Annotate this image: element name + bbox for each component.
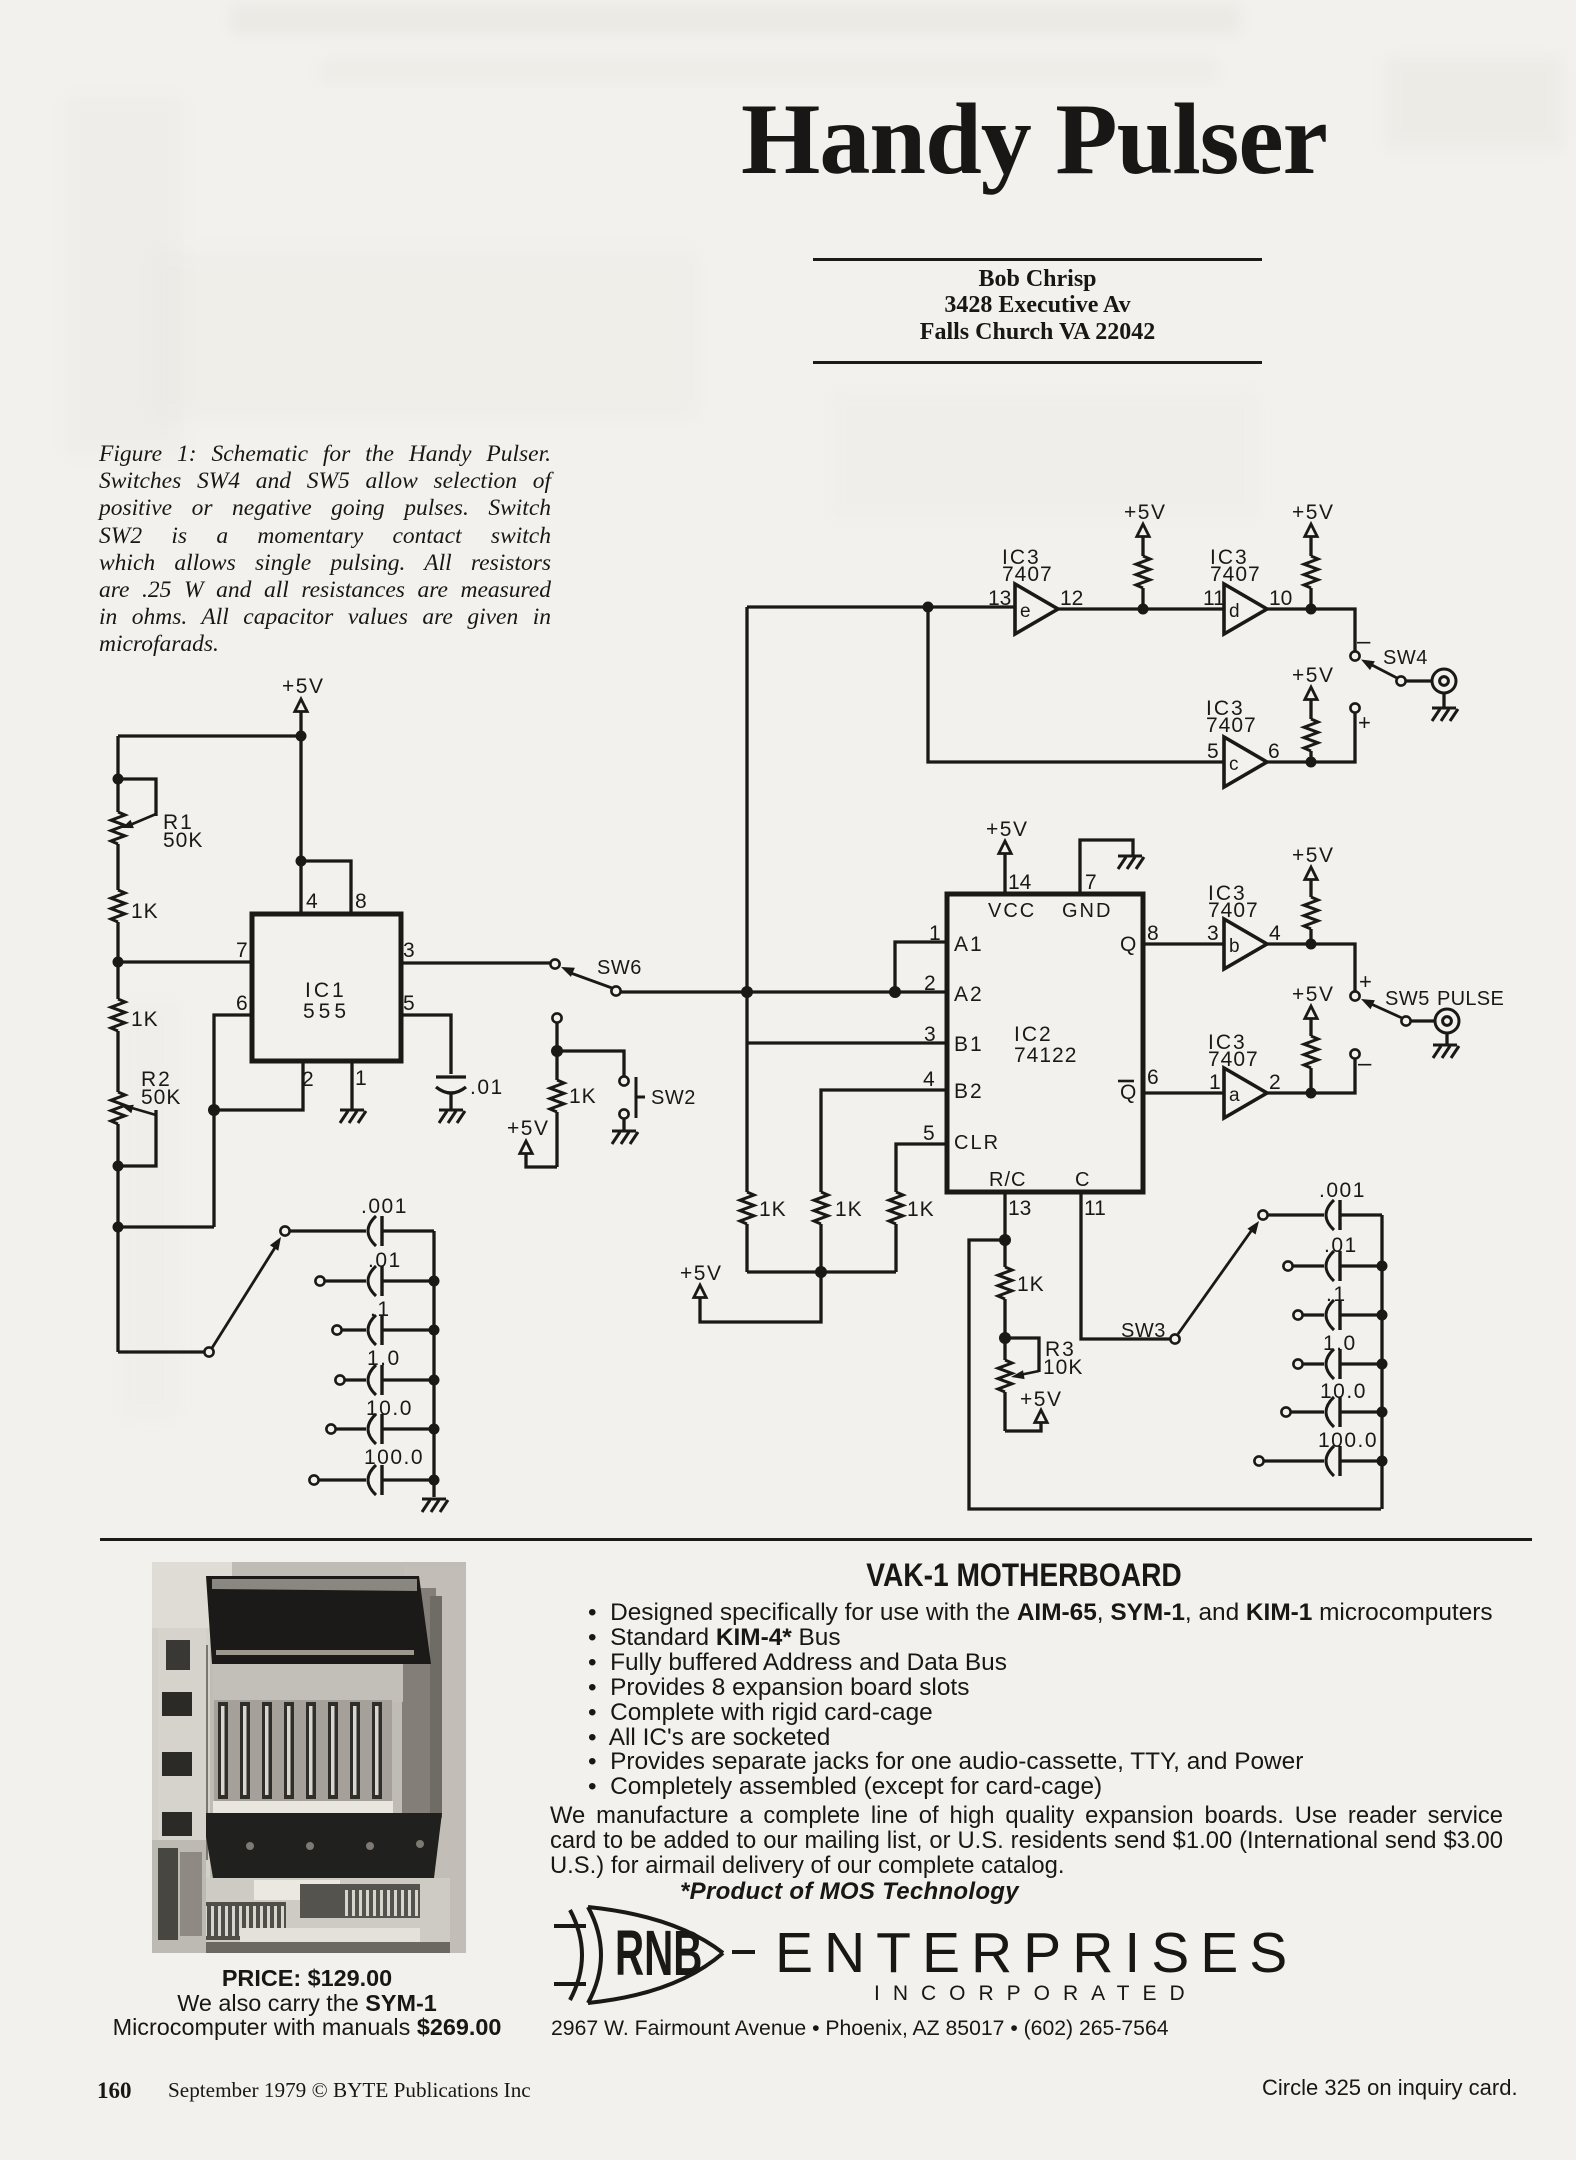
svg-text:.001: .001 xyxy=(361,1195,408,1218)
node right bus row6 xyxy=(1377,1456,1388,1467)
svg-text:GND: GND xyxy=(1062,900,1112,922)
svg-text:11: 11 xyxy=(1084,1197,1106,1220)
wire pull common to +5V xyxy=(700,1272,821,1322)
svg-text:+5V: +5V xyxy=(680,1262,722,1285)
ground IC2 pin 7 xyxy=(1118,856,1144,869)
svg-text:1K: 1K xyxy=(835,1198,863,1221)
node pins 2-6 junction xyxy=(208,1104,220,1116)
node pull-up e/d xyxy=(1138,604,1149,615)
wire pull resistor common xyxy=(747,1270,896,1273)
svg-text:50K: 50K xyxy=(163,829,203,852)
capacitor .1 (right bank row 3) xyxy=(1293,1283,1382,1330)
resistor 1K (SW2 pull-up) xyxy=(550,1051,597,1167)
svg-text:50K: 50K xyxy=(141,1086,181,1109)
wire buffer a output to SW5 minus throw xyxy=(1267,1059,1355,1093)
IC2 74122 monostable xyxy=(947,894,1143,1192)
svg-text:100.0: 100.0 xyxy=(1318,1429,1378,1452)
ground SW2 xyxy=(612,1131,638,1144)
resistor pull-up +5V (c output) xyxy=(1292,664,1334,762)
wire signal top horizontal to buffer e xyxy=(747,605,1015,608)
ground IC1 pin 1 xyxy=(340,1110,366,1123)
capacitor 1.0 (left bank row 4) xyxy=(335,1347,434,1395)
svg-text:5: 5 xyxy=(1207,740,1219,763)
capacitor 100.0 (left bank row 6) xyxy=(309,1446,434,1495)
node right bus row2 xyxy=(1377,1261,1388,1272)
svg-text:1.0: 1.0 xyxy=(367,1347,401,1370)
connector BNC jack (SW4) xyxy=(1406,669,1456,708)
switch SW6 xyxy=(550,957,641,996)
ground BNC SW4 xyxy=(1432,708,1458,721)
svg-text:SW4: SW4 xyxy=(1383,647,1428,669)
node bus row5 xyxy=(429,1424,440,1435)
svg-text:8: 8 xyxy=(355,890,367,913)
svg-text:555: 555 xyxy=(303,1000,350,1023)
svg-text:B1: B1 xyxy=(954,1033,984,1056)
svg-text:+: + xyxy=(1358,710,1371,735)
svg-text:SW6: SW6 xyxy=(597,957,642,979)
capacitor .01 (pin 5 bypass) xyxy=(436,1076,504,1110)
svg-text:5: 5 xyxy=(923,1122,935,1145)
node bus row3 xyxy=(429,1325,440,1336)
wire IC2 pin 7 to ground xyxy=(1080,840,1133,894)
wire IC2 pin 8 Q to buffer b xyxy=(1143,942,1224,945)
switch SW4 xyxy=(1350,628,1427,735)
svg-text:.1: .1 xyxy=(370,1298,391,1321)
svg-text:5: 5 xyxy=(403,992,415,1015)
svg-text:6: 6 xyxy=(1147,1066,1159,1089)
potentiometer R1 50K xyxy=(111,779,203,852)
wire buffer d output to SW4 minus throw xyxy=(1267,609,1355,651)
wire IC1 pin 5 xyxy=(401,1015,451,1074)
capacitor 1.0 (right bank row 4) xyxy=(1293,1332,1382,1379)
resistor 1K (B1 pull) xyxy=(740,1192,787,1272)
wire left bank common bus xyxy=(432,1231,435,1497)
resistor pull-up +5V (b output) xyxy=(1292,844,1334,944)
capacitor 10.0 (right bank row 5) xyxy=(1281,1380,1382,1427)
svg-text:.01: .01 xyxy=(470,1076,504,1099)
wire jumper to IC1 pin 8 xyxy=(301,861,351,914)
switch SW2 momentary pushbutton xyxy=(557,1051,696,1131)
wire R/C to timing bus return xyxy=(969,1240,1381,1509)
svg-text:IC2: IC2 xyxy=(1014,1023,1053,1046)
wire +5V rail down to IC1 pin 4 xyxy=(299,711,302,914)
node right bus row5 xyxy=(1377,1407,1388,1418)
wire top horizontal to left rail xyxy=(118,734,301,737)
svg-text:Q: Q xyxy=(1120,933,1136,956)
wire IC2 pin 3 B1 xyxy=(747,1041,947,1044)
svg-text:RNB: RNB xyxy=(615,1919,702,1990)
power +5V (R3) xyxy=(1005,1388,1062,1431)
buffer IC3 7407 c xyxy=(1206,697,1280,787)
wire IC2 pin 11 C to SW3 xyxy=(1081,1192,1171,1339)
svg-text:e: e xyxy=(1020,601,1031,622)
svg-text:14: 14 xyxy=(1008,871,1032,894)
wire IC1 pin 3 to SW6 xyxy=(401,961,550,964)
node bus row6 xyxy=(429,1475,440,1486)
potentiometer R2 50K xyxy=(111,1068,181,1166)
svg-text:+5V: +5V xyxy=(1124,501,1166,524)
svg-text:Q: Q xyxy=(1120,1081,1136,1104)
svg-text:R/C: R/C xyxy=(989,1169,1026,1191)
buffer IC3 7407 b xyxy=(1207,882,1281,969)
svg-text:2: 2 xyxy=(924,972,936,995)
buffer IC3 7407 d xyxy=(1203,546,1292,634)
resistor 1K (upper left) xyxy=(111,890,159,923)
svg-text:1.0: 1.0 xyxy=(1323,1332,1357,1355)
svg-text:4: 4 xyxy=(923,1068,935,1091)
capacitor .1 (left bank row 3) xyxy=(332,1298,434,1345)
ground BNC SW5 xyxy=(1433,1045,1459,1058)
resistor 1K (lower left) xyxy=(111,999,159,1031)
svg-text:13: 13 xyxy=(1008,1197,1031,1220)
svg-text:.01: .01 xyxy=(368,1249,402,1272)
svg-text:11: 11 xyxy=(1203,587,1225,610)
svg-text:+5V: +5V xyxy=(1292,983,1334,1006)
node junction at +5V rail xyxy=(296,731,307,742)
svg-text:13: 13 xyxy=(988,587,1011,610)
svg-text:CLR: CLR xyxy=(954,1132,1000,1154)
svg-text:4: 4 xyxy=(1269,922,1281,945)
ground .01 cap xyxy=(439,1110,465,1123)
svg-text:.1: .1 xyxy=(1326,1283,1347,1306)
node pull-up c out xyxy=(1306,757,1317,768)
capacitor .01 (left bank row 2) xyxy=(315,1249,434,1296)
node pull-up a out xyxy=(1306,1088,1317,1099)
svg-text:6: 6 xyxy=(1268,740,1280,763)
svg-text:PULSE: PULSE xyxy=(1437,988,1504,1010)
photograph VAK-1 card cage xyxy=(152,1562,466,1953)
node R/C junction xyxy=(999,1234,1011,1246)
svg-text:100.0: 100.0 xyxy=(364,1446,424,1469)
svg-text:8: 8 xyxy=(1147,922,1159,945)
svg-text:b: b xyxy=(1229,936,1240,957)
svg-text:SW2: SW2 xyxy=(651,1087,696,1109)
wire IC2 pin 13 R/C xyxy=(1003,1192,1006,1240)
power +5V (pull resistors) xyxy=(680,1262,722,1298)
svg-text:3: 3 xyxy=(1207,922,1219,945)
svg-text:.001: .001 xyxy=(1319,1179,1366,1202)
resistor 1K (CLR pull) xyxy=(889,1192,935,1272)
potentiometer R3 10K xyxy=(998,1338,1083,1431)
wire left rail segments xyxy=(116,736,119,1352)
buffer IC3 7407 a xyxy=(1208,1031,1281,1118)
svg-text:+5V: +5V xyxy=(986,818,1028,841)
node right bus row3 xyxy=(1377,1310,1388,1321)
svg-text:10.0: 10.0 xyxy=(366,1397,413,1420)
svg-text:7407: 7407 xyxy=(1208,1048,1259,1071)
svg-text:C: C xyxy=(1075,1169,1089,1191)
svg-text:–: – xyxy=(1358,1050,1372,1077)
svg-text:1K: 1K xyxy=(1017,1273,1045,1296)
logo RNB xor gate xyxy=(554,1907,755,2003)
svg-text:1: 1 xyxy=(1209,1071,1221,1094)
svg-text:10: 10 xyxy=(1269,587,1292,610)
wire SW6 pole to A2 line xyxy=(621,990,947,993)
capacitor 10.0 (left bank row 5) xyxy=(326,1397,434,1444)
IC2 pin numbers xyxy=(923,871,1159,1220)
resistor 1K (R/C) xyxy=(998,1240,1045,1334)
resistor pull-up +5V (d output) xyxy=(1292,501,1334,609)
switch SW1 rotary cap selector (left bank) xyxy=(118,1226,290,1356)
buffer IC3 7407 e xyxy=(988,546,1083,634)
node pull-up b out xyxy=(1306,939,1317,950)
svg-text:3: 3 xyxy=(403,939,415,962)
wire IC1 pin 1 to ground xyxy=(350,1061,353,1110)
wire IC1 pin 2 xyxy=(214,1061,303,1110)
svg-text:+5V: +5V xyxy=(282,675,324,698)
node signal at A2 line xyxy=(741,986,753,998)
svg-text:74122: 74122 xyxy=(1014,1044,1077,1067)
svg-text:+5V: +5V xyxy=(507,1117,549,1140)
wire IC2 pin 5 CLR xyxy=(896,1144,947,1192)
IC1 555 timer xyxy=(252,914,401,1061)
svg-text:2: 2 xyxy=(1269,1071,1281,1094)
svg-text:6: 6 xyxy=(236,992,248,1015)
wire right bank common bus xyxy=(1380,1215,1383,1509)
resistor 1K (B2 pull) xyxy=(814,1192,863,1272)
svg-text:4: 4 xyxy=(306,890,318,913)
wire buffer e output to buffer d xyxy=(1058,607,1224,610)
svg-text:1K: 1K xyxy=(131,1008,159,1031)
connector BNC jack (SW5) xyxy=(1411,1009,1459,1045)
wire IC1 pin 6 xyxy=(214,1015,252,1227)
svg-text:B2: B2 xyxy=(954,1080,984,1103)
wire IC2 pin 1 A1 xyxy=(895,942,947,987)
svg-text:10K: 10K xyxy=(1043,1356,1083,1379)
wire IC2 pin 6 Qbar to buffer a xyxy=(1143,1091,1224,1094)
capacitor .001 (right bank row 1) xyxy=(1267,1179,1382,1230)
capacitor 100.0 (right bank row 6) xyxy=(1254,1429,1382,1476)
IC1 pin numbers xyxy=(236,890,415,1091)
svg-text:c: c xyxy=(1229,754,1239,775)
resistor pull-up +5V (a output) xyxy=(1292,983,1334,1093)
svg-text:.01: .01 xyxy=(1324,1234,1358,1257)
node left rail to timing bus xyxy=(113,1222,124,1233)
power +5V (SW2 pull-up) xyxy=(507,1117,557,1167)
svg-text:d: d xyxy=(1229,601,1240,622)
wire buffer b output to SW5 plus throw xyxy=(1267,944,1355,991)
svg-text:A1: A1 xyxy=(954,933,984,956)
wire IC1 pin 7 xyxy=(118,960,252,963)
svg-text:1K: 1K xyxy=(759,1198,787,1221)
wire IC2 pin 4 B2 xyxy=(821,1090,947,1192)
node junction pin8 branch xyxy=(296,856,307,867)
node pull common xyxy=(815,1266,827,1278)
svg-text:VCC: VCC xyxy=(988,900,1036,922)
power +5V IC2 pin 14 xyxy=(986,818,1028,894)
svg-text:12: 12 xyxy=(1060,587,1083,610)
svg-text:1K: 1K xyxy=(131,900,159,923)
node branch to buffer c xyxy=(923,602,934,613)
svg-text:7407: 7407 xyxy=(1206,714,1257,737)
svg-text:7407: 7407 xyxy=(1002,563,1053,586)
wire rail to cap-select bus xyxy=(118,1225,214,1228)
resistor pull-up +5V (e/d node) xyxy=(1124,501,1166,609)
svg-text:a: a xyxy=(1229,1085,1240,1106)
svg-text:+5V: +5V xyxy=(1292,844,1334,867)
svg-text:1K: 1K xyxy=(569,1085,597,1108)
svg-text:A2: A2 xyxy=(954,983,984,1006)
svg-text:10.0: 10.0 xyxy=(1320,1380,1367,1403)
node right bus row4 xyxy=(1377,1359,1388,1370)
wire branch down to buffer c input xyxy=(928,607,1224,762)
svg-text:1: 1 xyxy=(355,1067,367,1090)
svg-text:7407: 7407 xyxy=(1208,899,1259,922)
svg-text:+5V: +5V xyxy=(1292,501,1334,524)
svg-text:SW5: SW5 xyxy=(1385,988,1430,1010)
node R3 tap xyxy=(999,1332,1011,1344)
node R2 wiper tap xyxy=(113,1161,124,1172)
svg-text:7407: 7407 xyxy=(1210,563,1261,586)
svg-text:–: – xyxy=(1357,628,1371,655)
node bus row2 xyxy=(429,1276,440,1287)
ground left bank bus xyxy=(422,1499,448,1512)
node pull-up d out xyxy=(1306,604,1317,615)
node A1/A2 junction xyxy=(889,986,901,998)
wire buffer c output to SW4 plus throw xyxy=(1267,713,1355,762)
node IC1 pin7 tap xyxy=(113,957,124,968)
svg-text:IC1: IC1 xyxy=(305,979,347,1002)
svg-text:SW3: SW3 xyxy=(1121,1320,1166,1342)
svg-text:+: + xyxy=(1359,969,1372,994)
svg-text:1K: 1K xyxy=(907,1198,935,1221)
power +5V supply (555 area) xyxy=(282,675,324,712)
wire main signal vertical xyxy=(745,607,748,1192)
node R1 wiper tap xyxy=(113,774,124,785)
capacitor .01 (right bank row 2) xyxy=(1283,1234,1382,1281)
svg-text:+5V: +5V xyxy=(1292,664,1334,687)
svg-text:7: 7 xyxy=(236,939,248,962)
capacitor .001 (left bank row 1) xyxy=(289,1195,434,1246)
switch SW3 xyxy=(1121,1210,1268,1343)
switch SW5 xyxy=(1350,969,1504,1077)
node SW2/1K junction xyxy=(551,1045,563,1057)
switch SW2 throw contact of SW6 xyxy=(552,1013,561,1051)
svg-text:7: 7 xyxy=(1085,871,1097,894)
node bus row4 xyxy=(429,1375,440,1386)
